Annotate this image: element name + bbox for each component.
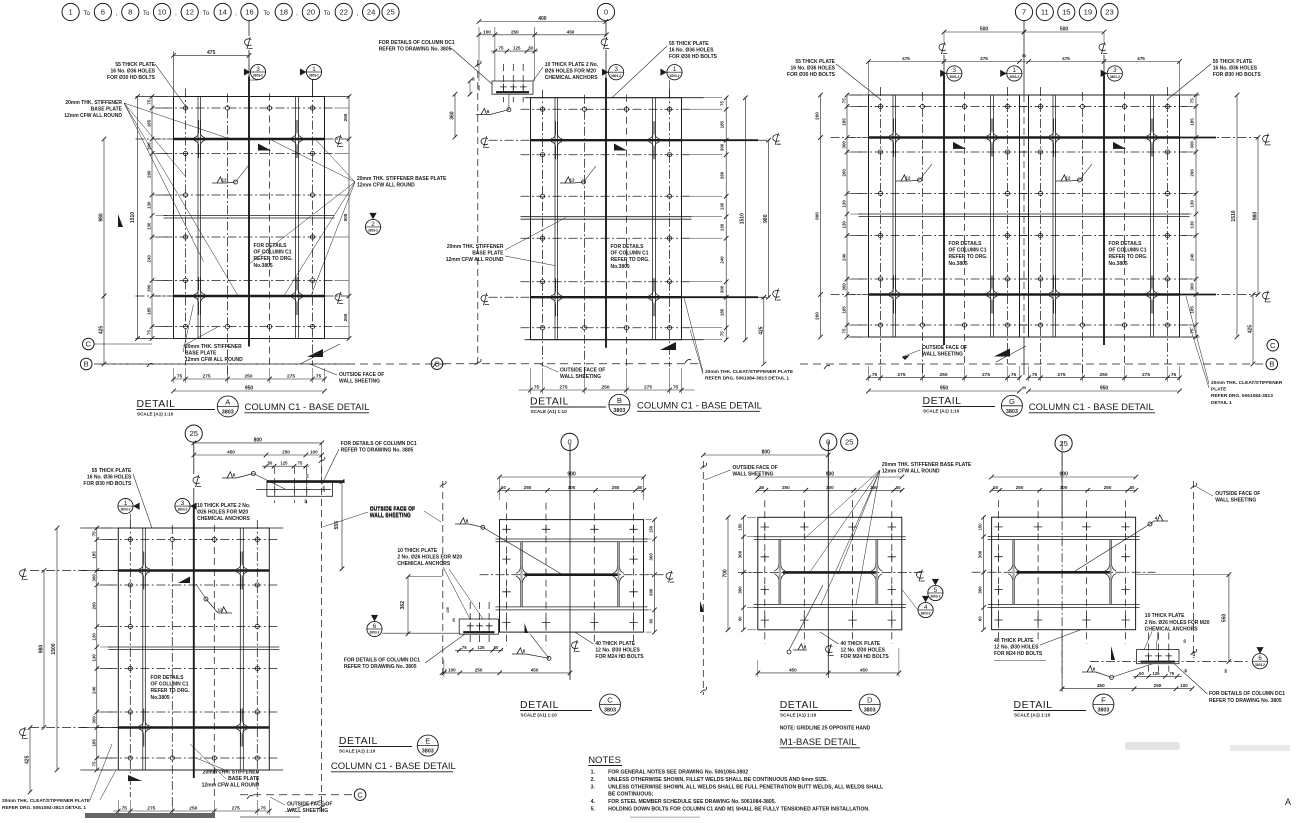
svg-text:75: 75 xyxy=(91,761,96,766)
detail G left top and bottom edge extensions xyxy=(849,94,1030,96)
svg-text:100: 100 xyxy=(322,486,326,492)
detail C dim 360 xyxy=(407,577,409,634)
svg-text:50: 50 xyxy=(529,46,534,51)
svg-text:75: 75 xyxy=(1171,372,1177,378)
svg-text:5.: 5. xyxy=(591,807,596,813)
svg-text:50: 50 xyxy=(1139,671,1144,676)
detail G right mid splice double line xyxy=(1019,213,1190,215)
svg-text:DETAIL: DETAIL xyxy=(780,699,819,711)
detail G right bolt line verticals (dashed) xyxy=(1040,87,1042,364)
svg-text:FOR M24 HD BOLTS: FOR M24 HD BOLTS xyxy=(994,651,1043,657)
detail B right dimension stack xyxy=(725,97,727,340)
svg-text:6: 6 xyxy=(523,648,526,653)
svg-text:20mm THK. STIFFENER: 20mm THK. STIFFENER xyxy=(65,100,122,106)
svg-text:250: 250 xyxy=(189,806,197,812)
detail C gridline 0 bubble xyxy=(561,433,578,450)
svg-text:75: 75 xyxy=(91,531,96,536)
svg-text:700: 700 xyxy=(723,569,729,578)
detail A weld symbol 12 xyxy=(212,177,226,183)
svg-text:6: 6 xyxy=(373,623,377,630)
detail F top dim 900 xyxy=(992,476,1136,478)
svg-text:1: 1 xyxy=(68,8,72,17)
svg-text:50: 50 xyxy=(1022,386,1026,390)
svg-text:No.3805: No.3805 xyxy=(949,261,968,267)
svg-text:260: 260 xyxy=(343,313,348,321)
detail G right flange taper shapes xyxy=(1049,119,1054,137)
svg-text:24: 24 xyxy=(367,8,375,17)
detail B CL symbols left xyxy=(481,136,489,148)
svg-text:75: 75 xyxy=(872,372,878,378)
svg-text:260: 260 xyxy=(842,169,847,177)
svg-text:1: 1 xyxy=(673,66,677,73)
svg-text:275: 275 xyxy=(147,806,155,812)
svg-text:300: 300 xyxy=(842,283,847,291)
svg-text:To: To xyxy=(84,11,91,17)
svg-text:BASE PLATE: BASE PLATE xyxy=(472,250,504,256)
svg-text:B: B xyxy=(84,360,89,369)
svg-text:300: 300 xyxy=(1060,485,1068,490)
detail D flange horizontal lines xyxy=(754,536,906,538)
svg-text:130: 130 xyxy=(147,201,152,209)
svg-text:12: 12 xyxy=(569,177,575,182)
svg-text:3803-2: 3803-2 xyxy=(1009,75,1019,79)
svg-text:3803-2: 3803-2 xyxy=(253,74,263,78)
svg-text:20mm THK. STIFFENER: 20mm THK. STIFFENER xyxy=(447,244,504,250)
detail G stiffener row bridge and right extension (heavy) xyxy=(1020,136,1029,138)
svg-text:75: 75 xyxy=(499,46,504,51)
detail F dim 550 xyxy=(1228,575,1230,662)
svg-text:50: 50 xyxy=(268,461,273,466)
detail G right stiffener thick row lower xyxy=(1029,293,1180,295)
svg-text:300: 300 xyxy=(738,586,743,594)
svg-text:90: 90 xyxy=(1224,669,1228,673)
svg-text:55 THICK PLATE: 55 THICK PLATE xyxy=(1213,59,1253,65)
svg-text:300: 300 xyxy=(649,553,654,561)
svg-text:SCALE (A1) 1:10: SCALE (A1) 1:10 xyxy=(137,412,174,417)
svg-text:260: 260 xyxy=(815,312,820,320)
svg-text:14: 14 xyxy=(218,8,226,17)
detail F bottom dims 50 125 75 xyxy=(1133,675,1182,677)
detail D wall sheeting dashed line xyxy=(702,461,704,695)
svg-text:362: 362 xyxy=(400,601,406,610)
detail G left centreline extensions of stiffener rows xyxy=(831,137,869,139)
svg-text:0: 0 xyxy=(604,8,608,17)
svg-text:12: 12 xyxy=(185,8,193,17)
detail E grid bubbles 1 3 xyxy=(118,499,133,514)
svg-text:C: C xyxy=(607,696,613,705)
svg-text:1: 1 xyxy=(1013,67,1017,74)
svg-text:REFER TO DRG.: REFER TO DRG. xyxy=(949,254,989,260)
svg-text:240: 240 xyxy=(147,255,152,263)
svg-text:Ø26 HOLES FOR M20: Ø26 HOLES FOR M20 xyxy=(545,69,596,75)
detail C centre grid vertical xyxy=(569,444,571,680)
svg-text:980: 980 xyxy=(763,214,769,223)
detail B CL symbols right xyxy=(773,133,781,145)
svg-text:130: 130 xyxy=(91,633,96,641)
detail C top dims 50 250 300 250 50 xyxy=(499,489,645,491)
svg-text:450: 450 xyxy=(1097,683,1105,688)
detail G left mid splice double line xyxy=(859,213,1030,215)
detail A mid splice double line xyxy=(164,215,335,217)
svg-text:FOR M24 HD BOLTS: FOR M24 HD BOLTS xyxy=(595,654,644,660)
detail A stiffener thick row lower xyxy=(174,295,325,297)
detail E left dimension stack xyxy=(96,527,98,770)
detail A weld arrow bottom xyxy=(307,349,323,357)
svg-text:Ø26 HOLES FOR M20: Ø26 HOLES FOR M20 xyxy=(197,510,248,516)
grid bubble 20 xyxy=(302,3,319,20)
svg-text:1500: 1500 xyxy=(51,643,57,654)
svg-text:SCALE (A1) 1:10: SCALE (A1) 1:10 xyxy=(923,409,960,414)
detail C bottom dims 75 135 50 xyxy=(455,649,503,651)
svg-text:3803-2: 3803-2 xyxy=(370,631,380,635)
detail E stiffener thick row lower xyxy=(118,726,269,728)
svg-text:FOR Ø30 HD BOLTS: FOR Ø30 HD BOLTS xyxy=(1213,72,1262,78)
detail E anchor plate assembly xyxy=(267,481,333,497)
detail G right dimension stack xyxy=(1195,94,1197,337)
svg-text:16 No. Ø36 HOLES: 16 No. Ø36 HOLES xyxy=(111,68,156,74)
svg-text:OF COLUMN C1: OF COLUMN C1 xyxy=(151,682,189,688)
detail G gridline 7 drop line xyxy=(1023,21,1025,95)
svg-text:E: E xyxy=(425,737,430,746)
detail A bottom dimension row xyxy=(173,378,326,380)
detail B weld 6 and leader xyxy=(476,108,490,114)
detail G left holding-down bolt holes xyxy=(878,104,882,108)
svg-text:800: 800 xyxy=(254,437,263,443)
svg-text:50: 50 xyxy=(638,485,643,490)
svg-text:12mm CFW ALL ROUND: 12mm CFW ALL ROUND xyxy=(202,782,260,788)
svg-text:425: 425 xyxy=(1248,325,1254,334)
svg-text:75: 75 xyxy=(534,385,540,391)
detail A gridline C leader xyxy=(94,343,152,345)
svg-text:75: 75 xyxy=(720,331,725,336)
detail G left base plate outline xyxy=(869,95,1020,337)
detail B anchor plate assembly xyxy=(492,81,533,94)
svg-text:900: 900 xyxy=(567,472,576,478)
svg-text:BE CONTINUOUS;: BE CONTINUOUS; xyxy=(608,792,654,798)
detail B inner dashed verticals xyxy=(584,95,586,376)
detail A centreline extensions of stiffener rows xyxy=(136,138,174,140)
svg-text:BASE PLATE: BASE PLATE xyxy=(91,106,123,112)
detail C black triangle xyxy=(525,623,529,633)
detail G left bolt line verticals (dashed) xyxy=(880,87,882,364)
svg-text:C: C xyxy=(357,790,363,799)
svg-text:REFER TO DRG.: REFER TO DRG. xyxy=(611,257,651,263)
svg-text:3803-2: 3803-2 xyxy=(309,74,319,78)
svg-text:OUTSIDE FACE OF: OUTSIDE FACE OF xyxy=(560,368,605,374)
svg-text:WALL SHEETING: WALL SHEETING xyxy=(922,351,963,357)
svg-text:980: 980 xyxy=(1253,212,1259,221)
svg-text:3: 3 xyxy=(256,66,260,73)
detail C top dim 900 xyxy=(500,476,644,478)
detail D weld 8 bottom left xyxy=(787,650,791,654)
svg-text:12 No. Ø30 HOLES: 12 No. Ø30 HOLES xyxy=(595,648,640,654)
detail E top dim 800 xyxy=(194,442,322,444)
svg-text:NOTE: GRIDLINE 25 OPPOSITE HAN: NOTE: GRIDLINE 25 OPPOSITE HAND xyxy=(780,726,871,732)
detail G gridline B dashed xyxy=(800,363,1266,365)
svg-text:FOR DETAILS OF COLUMN DC1: FOR DETAILS OF COLUMN DC1 xyxy=(1209,691,1285,697)
svg-text:980: 980 xyxy=(39,645,45,654)
svg-text:16 No. Ø36 HOLES: 16 No. Ø36 HOLES xyxy=(87,474,132,480)
detail F anchor plate assembly xyxy=(1137,650,1179,664)
svg-text:75: 75 xyxy=(1032,372,1038,378)
svg-text:10 THICK PLATE 2 No.: 10 THICK PLATE 2 No. xyxy=(197,503,251,509)
svg-text:C: C xyxy=(434,359,440,368)
svg-text:12mm CFW ALL ROUND: 12mm CFW ALL ROUND xyxy=(357,182,415,188)
svg-text:100: 100 xyxy=(1180,683,1188,688)
detail G right inner dashed verticals xyxy=(1082,92,1084,373)
detail B grid bubble 3 xyxy=(609,65,624,80)
detail C bottom dims 100 250 450 xyxy=(444,672,570,674)
svg-text:260: 260 xyxy=(720,171,725,179)
detail E column web centre line (thick) xyxy=(193,508,195,778)
detail B flange vertical lines xyxy=(554,98,556,340)
svg-text:1: 1 xyxy=(124,500,128,507)
svg-text:275: 275 xyxy=(1142,372,1150,378)
detail A column web centre line (thick) xyxy=(248,77,250,347)
svg-text:250: 250 xyxy=(601,385,609,391)
detail A bubble 2 right xyxy=(365,219,380,234)
svg-text:125: 125 xyxy=(281,461,289,466)
svg-text:185: 185 xyxy=(91,551,96,559)
svg-text:400: 400 xyxy=(538,16,547,22)
detail B stiffener thick row upper xyxy=(531,139,682,141)
svg-text:550: 550 xyxy=(1222,614,1228,623)
svg-text:240: 240 xyxy=(720,256,725,264)
grid bubble 6 xyxy=(94,3,111,20)
svg-text:300: 300 xyxy=(147,284,152,292)
svg-text:25: 25 xyxy=(386,8,394,17)
detail G grid bubbles 3 1 3 xyxy=(947,66,962,81)
grid bubble 0 (detail B) xyxy=(597,3,614,20)
svg-text:FOR Ø30 HD BOLTS: FOR Ø30 HD BOLTS xyxy=(787,72,836,78)
svg-text:75: 75 xyxy=(462,645,467,650)
detail B stiffener thick row lower xyxy=(531,296,682,298)
svg-text:135: 135 xyxy=(446,607,450,613)
detail G right holding-down bolt holes xyxy=(1038,104,1042,108)
detail F base plate outline xyxy=(992,517,1136,630)
detail A stiffener thick row upper xyxy=(174,138,325,140)
svg-text:7: 7 xyxy=(1022,8,1026,17)
svg-text:WALL SHEETING: WALL SHEETING xyxy=(1215,497,1256,503)
svg-text:10 THICK PLATE 2 No.: 10 THICK PLATE 2 No. xyxy=(545,62,599,68)
svg-text:OUTSIDE FACE OF: OUTSIDE FACE OF xyxy=(370,506,415,512)
svg-text:25: 25 xyxy=(845,438,853,447)
svg-text:COLUMN C1 - BASE DETAIL: COLUMN C1 - BASE DETAIL xyxy=(245,402,370,413)
svg-text:REFER TO DRG.: REFER TO DRG. xyxy=(151,688,191,694)
detail E gridline 25 bubble xyxy=(185,425,202,442)
svg-text:FOR M24 HD BOLTS: FOR M24 HD BOLTS xyxy=(841,654,890,660)
svg-text:No.3805: No.3805 xyxy=(151,695,170,701)
svg-text:500: 500 xyxy=(980,27,989,33)
svg-text:OUTSIDE FACE OF: OUTSIDE FACE OF xyxy=(287,802,332,808)
svg-text:60: 60 xyxy=(738,616,743,621)
svg-text:12: 12 xyxy=(221,177,227,182)
svg-text:60: 60 xyxy=(978,616,983,621)
svg-text:5: 5 xyxy=(934,587,938,594)
detail D left dimension stack xyxy=(743,516,745,630)
svg-text:20mm THK. CLEAT/STIFFENER PLAT: 20mm THK. CLEAT/STIFFENER PLATE xyxy=(705,369,794,375)
svg-text:REFER DRG. 5061084-3813: REFER DRG. 5061084-3813 xyxy=(1211,393,1273,399)
svg-text:SCALE (A1) 1:10: SCALE (A1) 1:10 xyxy=(531,409,568,414)
svg-text:DETAIL: DETAIL xyxy=(530,396,569,408)
svg-text:20mm THK. CLEAT/STIFFENER PLAT: 20mm THK. CLEAT/STIFFENER PLATE xyxy=(2,798,91,804)
detail E mid splice double line xyxy=(108,646,279,648)
svg-text:275: 275 xyxy=(202,374,210,380)
svg-text:REFER TO DRAWING No. 3805: REFER TO DRAWING No. 3805 xyxy=(379,47,452,53)
svg-text:20: 20 xyxy=(307,8,315,17)
svg-text:3803: 3803 xyxy=(422,749,434,755)
svg-text:REFER DRG. 5061084-3813 DETAIL: REFER DRG. 5061084-3813 DETAIL 1 xyxy=(705,375,789,381)
detail G right flange vertical lines xyxy=(1052,95,1054,337)
detail A overall dim 950 xyxy=(174,390,325,392)
detail B anchor dim 400 xyxy=(479,21,606,23)
svg-text:185: 185 xyxy=(842,306,847,314)
svg-text:300: 300 xyxy=(978,586,983,594)
svg-text:75: 75 xyxy=(1011,372,1017,378)
svg-text:3803-2: 3803-2 xyxy=(930,595,940,599)
detail F bottom dims 450 250 100 xyxy=(1062,688,1192,690)
detail F weld 6 bottom xyxy=(1082,666,1096,672)
svg-text:16 No. Ø36 HOLES: 16 No. Ø36 HOLES xyxy=(669,47,714,53)
svg-text:450: 450 xyxy=(567,29,575,34)
svg-text:10 THICK PLATE: 10 THICK PLATE xyxy=(397,548,437,554)
svg-text:1: 1 xyxy=(312,66,316,73)
svg-text:OF COLUMN C1: OF COLUMN C1 xyxy=(949,248,987,254)
svg-text:300: 300 xyxy=(91,716,96,724)
svg-text:3: 3 xyxy=(953,67,957,74)
svg-text:75: 75 xyxy=(673,385,679,391)
svg-text:130: 130 xyxy=(91,654,96,662)
scan artifacts bottom xyxy=(85,813,215,818)
svg-text:To: To xyxy=(203,11,210,17)
detail C CL symbol bottom xyxy=(571,640,579,652)
detail F black triangle xyxy=(1111,646,1115,660)
svg-text:FOR DETAILS OF COLUMN DC1: FOR DETAILS OF COLUMN DC1 xyxy=(379,40,455,46)
detail G right outer dims 1510 980 425 xyxy=(1236,95,1238,337)
grid bubble 25 xyxy=(382,3,399,20)
detail G left dimension stack xyxy=(846,94,848,337)
svg-text:450: 450 xyxy=(860,667,868,672)
svg-text:130: 130 xyxy=(720,223,725,231)
svg-text:SCALE (A1) 1:10: SCALE (A1) 1:10 xyxy=(521,713,558,718)
svg-text:FOR DETAILS: FOR DETAILS xyxy=(611,244,645,250)
svg-text:60: 60 xyxy=(649,618,654,623)
svg-text:OUTSIDE FACE OF: OUTSIDE FACE OF xyxy=(1215,491,1260,497)
svg-text:NOTES: NOTES xyxy=(588,755,621,766)
detail D CL symbol bottom xyxy=(825,644,833,656)
svg-text:16 No. Ø36 HOLES: 16 No. Ø36 HOLES xyxy=(1213,65,1258,71)
detail C flag bubble 6 xyxy=(367,621,382,636)
svg-text:6: 6 xyxy=(487,109,490,114)
detail D flag bubbles 5 4 xyxy=(928,585,943,600)
svg-text:275: 275 xyxy=(232,806,240,812)
svg-text:50: 50 xyxy=(501,485,506,490)
svg-text:425: 425 xyxy=(25,755,31,764)
detail A top CL symbol xyxy=(244,37,252,49)
svg-text:4.: 4. xyxy=(591,799,596,805)
svg-text:250: 250 xyxy=(524,485,532,490)
svg-text:OUTSIDE FACE OF: OUTSIDE FACE OF xyxy=(733,465,778,471)
detail G left inner dashed verticals xyxy=(922,92,924,373)
detail B weld black arrow xyxy=(614,144,627,151)
svg-text:FOR DETAILS: FOR DETAILS xyxy=(1109,241,1143,247)
detail E holding-down bolt holes xyxy=(128,537,132,541)
svg-text:1.: 1. xyxy=(591,770,596,776)
grid bubble 22 xyxy=(335,3,352,20)
svg-text:300: 300 xyxy=(1190,141,1195,149)
svg-text:75: 75 xyxy=(147,330,152,335)
detail G right column web centre line (thick) xyxy=(1103,75,1105,345)
grid bubble 24 xyxy=(363,3,380,20)
detail E base plate outline xyxy=(118,528,269,770)
detail A horizontal bolt rows xyxy=(164,107,335,109)
detail F anchor centreline xyxy=(1090,661,1248,663)
svg-text:75: 75 xyxy=(842,98,847,103)
svg-text:300: 300 xyxy=(720,143,725,151)
detail G left column web centre line (thick) xyxy=(943,75,945,345)
svg-text:10: 10 xyxy=(158,8,166,17)
detail B weld symbol 12 xyxy=(560,177,574,183)
svg-text:WALL SHEETING: WALL SHEETING xyxy=(733,471,774,477)
svg-text:3803: 3803 xyxy=(864,708,876,714)
svg-text:60: 60 xyxy=(1184,669,1188,673)
svg-text:250: 250 xyxy=(1016,485,1024,490)
detail B centreline extensions of stiffener rows xyxy=(489,139,531,141)
svg-text:20mm THK. CLEAT/STIFFENER: 20mm THK. CLEAT/STIFFENER xyxy=(1211,380,1283,386)
detail G right top and bottom edge extensions xyxy=(1019,94,1200,96)
svg-text:300: 300 xyxy=(568,485,576,490)
detail G right horizontal bolt rows xyxy=(1019,106,1190,108)
detail B wall sheeting dashed line xyxy=(477,60,479,368)
detail D flange taper shapes xyxy=(774,540,779,571)
detail E weld 6 and leader xyxy=(222,472,236,478)
detail B gridline 0 drop line xyxy=(605,21,607,36)
svg-text:55 THICK PLATE: 55 THICK PLATE xyxy=(92,468,132,474)
svg-text:75: 75 xyxy=(122,806,128,812)
detail E flange vertical lines xyxy=(142,528,144,770)
svg-text:3803-2: 3803-2 xyxy=(921,612,931,616)
svg-text:3803-2: 3803-2 xyxy=(121,508,131,512)
detail E bolt line verticals (dashed) xyxy=(129,520,131,797)
svg-text:DETAIL: DETAIL xyxy=(1014,699,1053,711)
svg-text:185: 185 xyxy=(842,118,847,126)
grid bubble 16 xyxy=(241,3,258,20)
svg-text:250: 250 xyxy=(939,372,947,378)
detail B column web centre line (thick) xyxy=(605,78,607,348)
svg-text:260: 260 xyxy=(1190,169,1195,177)
svg-text:SCALE (A1) 1:10: SCALE (A1) 1:10 xyxy=(780,713,817,718)
svg-text:To: To xyxy=(143,11,150,17)
svg-text:240: 240 xyxy=(91,686,96,694)
svg-text:260: 260 xyxy=(815,112,820,120)
detail G gridline C and B bubbles xyxy=(1267,339,1279,351)
svg-text:300: 300 xyxy=(842,141,847,149)
svg-text:125: 125 xyxy=(513,46,521,51)
svg-text:4: 4 xyxy=(1155,515,1158,520)
svg-text:250: 250 xyxy=(282,450,290,455)
detail D top dim 900 xyxy=(758,476,902,478)
svg-text:FOR Ø30 HD BOLTS: FOR Ø30 HD BOLTS xyxy=(107,75,156,81)
svg-text:185: 185 xyxy=(91,739,96,747)
svg-text:125: 125 xyxy=(1153,671,1161,676)
detail A gridline B dashed xyxy=(94,363,355,365)
detail E gridline C bubble xyxy=(354,789,366,801)
detail G weld symbols 12 xyxy=(896,175,910,181)
svg-text:19: 19 xyxy=(1084,8,1092,17)
detail A left dimension stack xyxy=(151,96,153,339)
detail A top dimension 475 xyxy=(174,54,250,56)
svg-text:12: 12 xyxy=(1065,175,1071,180)
